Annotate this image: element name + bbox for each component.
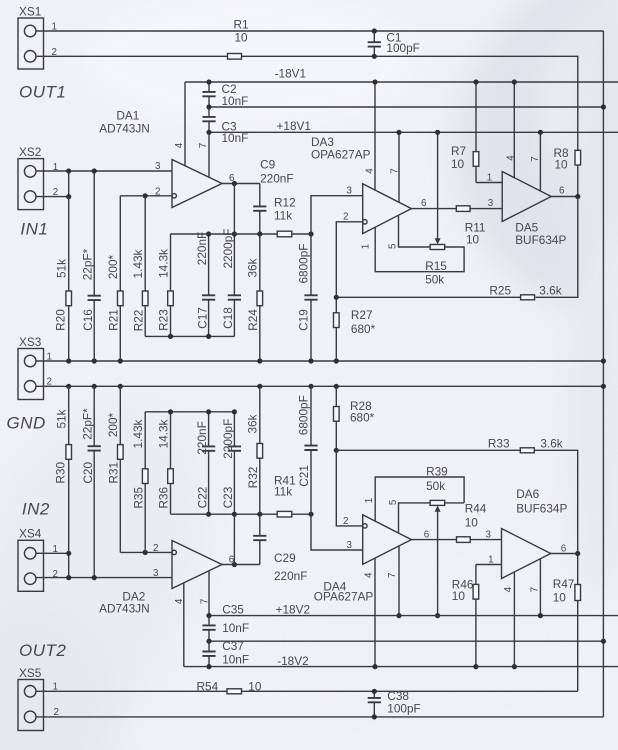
svg-text:R47: R47: [553, 577, 575, 591]
wire feedback bottom rail: [145, 335, 234, 337]
svg-text:C21: C21: [297, 465, 311, 487]
svg-text:1: 1: [487, 172, 492, 183]
svg-text:1: 1: [364, 498, 375, 503]
svg-text:C23: C23: [221, 486, 235, 508]
svg-text:OUT2: OUT2: [19, 641, 66, 660]
svg-text:220nF: 220nF: [260, 171, 293, 185]
svg-text:C20: C20: [81, 462, 95, 484]
svg-text:10nF: 10nF: [222, 653, 249, 667]
svg-text:7: 7: [387, 573, 398, 578]
svg-text:BUF634P: BUF634P: [515, 233, 566, 247]
svg-text:2200pF: 2200pF: [221, 419, 235, 459]
svg-text:+18V2: +18V2: [276, 603, 310, 617]
svg-text:7: 7: [390, 168, 401, 173]
capacitor C20 column: [93, 386, 95, 446]
wire DA2 output: [222, 564, 260, 566]
svg-text:3: 3: [488, 198, 494, 209]
svg-text:C16: C16: [81, 309, 95, 331]
capacitor C22 column: [208, 412, 210, 447]
node on pin3 wire for R20: [66, 168, 71, 173]
capacitor C29: [259, 540, 261, 564]
capacitor C21 column: [310, 386, 312, 445]
net +18V1 rail: [209, 131, 618, 133]
wire feedback top rail y=234: [171, 233, 278, 235]
wire DA3 pin3 link: [311, 196, 363, 234]
svg-text:4: 4: [506, 155, 517, 161]
svg-text:2: 2: [53, 569, 58, 580]
resistor R25: [521, 295, 535, 300]
wire R39 wiper to +18V2: [437, 511, 439, 616]
wire XS4.1 stub: [36, 552, 69, 554]
svg-text:R15: R15: [425, 259, 447, 273]
svg-text:4: 4: [363, 572, 374, 578]
resistor R32 column: [259, 386, 261, 443]
wire XS5.1 to R54: [36, 690, 227, 692]
svg-text:4: 4: [174, 142, 185, 148]
svg-text:6: 6: [229, 173, 235, 184]
node output / C23 branch: [232, 562, 237, 567]
wire R44 to DA6 pin3: [470, 539, 501, 541]
svg-text:3: 3: [155, 161, 161, 172]
wire DA5 pin7 from +18V1: [539, 132, 541, 191]
node output / C18 branch: [232, 181, 237, 186]
resistor R27 column: [335, 297, 337, 313]
wire XS4.2 to DA2 pin3: [36, 577, 172, 579]
wire XS2.2 stub to R20 column: [36, 196, 69, 198]
wire R8 to DA5 output node: [577, 165, 579, 197]
wire XS3.2 rail: [36, 385, 603, 387]
wire DA3 pin4 from -18V1: [374, 82, 376, 190]
capacitor C19 column: [310, 234, 312, 295]
svg-text:2: 2: [153, 543, 158, 554]
wire R33 feedback: [336, 449, 520, 451]
svg-text:6: 6: [424, 529, 430, 540]
svg-text:R35: R35: [132, 487, 146, 509]
resistor R33: [520, 448, 534, 453]
svg-text:R31: R31: [107, 462, 121, 484]
svg-text:6800pF: 6800pF: [297, 243, 311, 283]
svg-text:R36: R36: [157, 487, 171, 509]
svg-text:220nF: 220nF: [195, 232, 209, 265]
svg-text:R44: R44: [465, 502, 487, 516]
svg-text:C18: C18: [221, 307, 235, 329]
resistor R24 column: [259, 234, 261, 291]
wire DA5 output down to R25: [536, 197, 578, 298]
capacitor C16 column: [93, 171, 95, 296]
node pin2 / R22: [143, 193, 148, 198]
svg-text:4: 4: [174, 598, 185, 604]
svg-text:3.6k: 3.6k: [540, 437, 562, 451]
op-amp DA4: [363, 515, 412, 565]
svg-text:5: 5: [387, 243, 398, 249]
connector XS5 (OUT2): [18, 680, 44, 731]
node R28 / R33 / DA4 pin2: [334, 448, 339, 453]
svg-text:XS1: XS1: [19, 5, 41, 19]
wire DA1 pin7 branch: [208, 132, 210, 177]
wire DA4 pin7 to +18V2: [398, 546, 400, 616]
node XS2.2 / R20: [66, 194, 71, 199]
resistor R44: [457, 537, 471, 543]
trim network R15: pin5 wire: [399, 215, 431, 247]
wire feedback wire y=514 (ch2): [171, 513, 278, 515]
wire R11 to DA5 pin3: [470, 208, 502, 210]
node on pin3 wire for C16: [92, 168, 97, 173]
svg-text:10: 10: [451, 157, 465, 171]
wire output vertical to feedback wire (ch2): [233, 514, 235, 564]
svg-text:4: 4: [503, 586, 514, 592]
connector XS1 (OUT1): [18, 18, 44, 69]
svg-text:C29: C29: [274, 551, 296, 565]
capacitor C2: [208, 82, 210, 92]
capacitor C23 column: [233, 412, 235, 447]
svg-text:-18V2: -18V2: [277, 654, 308, 668]
potentiometer R15: [430, 245, 445, 250]
wire DA5 output: [551, 196, 578, 198]
svg-text:200*: 200*: [106, 412, 120, 437]
svg-text:36k: 36k: [246, 258, 260, 277]
wire DA5 pin4 from -18V1: [513, 82, 515, 178]
svg-text:6: 6: [561, 543, 567, 554]
resistor R41: [277, 511, 292, 517]
wire DA3 output to R11: [411, 208, 456, 210]
net -18V2 rail: [184, 666, 618, 668]
svg-text:11k: 11k: [274, 484, 292, 498]
svg-text:22pF*: 22pF*: [81, 248, 95, 280]
svg-text:2: 2: [343, 212, 348, 223]
svg-text:3: 3: [153, 568, 159, 579]
wire R54 to R47 corner: [242, 690, 578, 692]
wire R12 to C19 node: [292, 233, 311, 235]
svg-text:7: 7: [200, 599, 211, 604]
capacitor C38: [373, 691, 375, 698]
svg-text:R20: R20: [53, 309, 67, 331]
svg-text:680*: 680*: [351, 322, 376, 336]
svg-text:C17: C17: [195, 307, 209, 329]
op-amp DA2: [172, 541, 222, 589]
connector XS2 (IN1): [18, 159, 44, 210]
wire R15 loop to DA3 pin1: [375, 227, 464, 271]
svg-text:OUT1: OUT1: [19, 83, 66, 102]
wire XS5.2 from GND bus: [36, 716, 603, 718]
wire DA6 pin4 to -18V2: [513, 572, 515, 667]
svg-text:10nF: 10nF: [222, 621, 249, 635]
op-amp DA5 buffer: [502, 172, 551, 222]
svg-text:7: 7: [198, 143, 209, 148]
wire XS1.2 signal to R1: [36, 55, 228, 57]
svg-text:14.3k: 14.3k: [157, 419, 171, 448]
wire DA4 pin4 to -18V2: [374, 558, 376, 667]
svg-text:XS4: XS4: [19, 527, 42, 541]
svg-text:7: 7: [530, 156, 541, 161]
trim network R39: pin1 loop: [375, 477, 464, 521]
resistor R30 column: [68, 386, 70, 444]
svg-text:R21: R21: [107, 309, 121, 331]
svg-text:-18V1: -18V1: [275, 67, 306, 81]
svg-text:36k: 36k: [246, 414, 260, 433]
svg-text:1: 1: [360, 244, 371, 249]
wire R1 to right corner: [242, 56, 578, 150]
svg-text:50k: 50k: [425, 272, 444, 286]
op-amp DA3: [363, 184, 412, 234]
svg-text:200*: 200*: [106, 254, 120, 279]
wire R15 wiper to +18V1: [437, 132, 439, 239]
wire DA1 pin4 branch: [184, 82, 186, 166]
wire DA2 pin7 branch: [208, 571, 210, 616]
svg-text:680*: 680*: [350, 411, 375, 425]
wire DA2 pin4 branch: [183, 583, 185, 667]
capacitor C1: [373, 31, 375, 42]
wire DA6 pin7 to +18V2: [539, 559, 541, 616]
resistor R31 column: [119, 386, 121, 444]
wire R41 to C21 node: [292, 513, 311, 515]
node C19 / DA3 pin3: [257, 231, 262, 236]
svg-text:C9: C9: [260, 158, 275, 172]
wire R7 to DA5 pin1: [476, 182, 502, 184]
wire R33 to DA6 output: [534, 450, 577, 553]
resistor R28 column: [335, 386, 337, 406]
svg-text:6800pF: 6800pF: [297, 395, 311, 435]
potentiometer R39: [430, 500, 445, 505]
svg-text:10: 10: [555, 158, 569, 172]
wire DA3 pin7 from +18V1: [398, 132, 400, 202]
svg-text:3.6k: 3.6k: [539, 284, 561, 298]
capacitor C3: [208, 107, 210, 117]
node pin2 / R35: [143, 550, 148, 555]
resistor R35 column: [144, 412, 146, 469]
resistor R7 column: [475, 82, 477, 152]
wire GND bus vertical right side: [602, 31, 604, 717]
capacitor C35: [208, 616, 210, 626]
wire output vertical to feedback wire: [233, 184, 235, 235]
svg-text:220nF: 220nF: [195, 421, 209, 454]
resistor R11: [456, 206, 470, 212]
svg-text:AD743JN: AD743JN: [99, 122, 150, 136]
wire DA1 output: [222, 183, 260, 185]
net GND mid rail (channel 2): [209, 640, 603, 642]
svg-text:5: 5: [388, 499, 399, 505]
wire DA4 pin2 link: [336, 450, 363, 526]
svg-text:R25: R25: [489, 284, 511, 298]
wire R39 left to pin5: [399, 503, 431, 533]
wire feedback top rail (ch2): [145, 411, 234, 413]
net -18V1 rail: [185, 81, 618, 83]
node DA5 output: [575, 194, 580, 199]
resistor R47 column: [577, 554, 579, 585]
svg-text:100pF: 100pF: [387, 701, 420, 715]
svg-text:BUF634P: BUF634P: [516, 502, 567, 516]
svg-text:1.43k: 1.43k: [131, 419, 145, 448]
connector XS3 (GND): [18, 349, 44, 400]
wire DA3 pin2 link: [336, 222, 363, 297]
svg-text:10: 10: [466, 232, 480, 246]
node DA6 output: [575, 551, 580, 556]
svg-text:R54: R54: [197, 679, 219, 693]
wire R39 right side: [445, 502, 464, 504]
svg-text:2: 2: [54, 707, 59, 718]
wire DA1 pin2 segment: [120, 195, 172, 197]
svg-text:3: 3: [347, 540, 353, 551]
wire R31 to DA2 pin2: [120, 551, 172, 553]
svg-text:100pF: 100pF: [386, 41, 419, 55]
svg-text:51k: 51k: [55, 409, 69, 428]
resistor R22 column: [144, 196, 146, 291]
resistor R8: [575, 150, 581, 165]
op-amp DA6 buffer: [502, 529, 551, 579]
svg-text:R22: R22: [132, 310, 146, 332]
svg-text:OPA627AP: OPA627AP: [314, 590, 374, 604]
connector XS4 (IN2): [18, 540, 44, 591]
capacitor C17 column: [208, 234, 210, 295]
svg-text:IN2: IN2: [22, 500, 50, 519]
svg-text:R32: R32: [246, 467, 260, 489]
svg-text:10nF: 10nF: [222, 131, 249, 145]
op-amp DA1: [172, 160, 222, 208]
node DA3 pin2 / R25 / R27: [334, 295, 339, 300]
wire DA4 output: [411, 539, 456, 541]
resistor R1: [228, 54, 242, 60]
svg-text:+18V1: +18V1: [277, 119, 311, 133]
wire XS2.1 to DA1 pin3: [36, 170, 172, 172]
svg-text:22pF*: 22pF*: [81, 408, 95, 440]
svg-text:10: 10: [452, 589, 466, 603]
svg-text:3: 3: [486, 529, 492, 540]
wire XS1.1 to GND bus corner (top ground wire): [36, 30, 603, 32]
svg-text:11k: 11k: [274, 208, 292, 222]
svg-text:10: 10: [235, 31, 249, 45]
svg-text:GND: GND: [7, 414, 46, 433]
svg-text:10nF: 10nF: [222, 94, 249, 108]
svg-text:DA6: DA6: [516, 487, 539, 501]
capacitor C18 column: [233, 234, 235, 295]
svg-text:7: 7: [530, 587, 541, 592]
svg-text:R39: R39: [426, 464, 448, 478]
wire ground rail XS3.1: [36, 360, 603, 362]
svg-text:10: 10: [553, 590, 567, 604]
svg-text:R1: R1: [234, 18, 249, 32]
resistor R12: [277, 231, 292, 237]
svg-text:6: 6: [559, 186, 565, 197]
svg-text:4: 4: [365, 168, 376, 174]
svg-text:50k: 50k: [426, 479, 445, 493]
svg-text:XS5: XS5: [19, 666, 42, 680]
svg-text:AD743JN: AD743JN: [99, 601, 150, 615]
resistor R36 column: [170, 412, 172, 469]
svg-text:XS3: XS3: [19, 335, 42, 349]
resistor R46 column: [475, 565, 477, 585]
svg-text:C35: C35: [222, 603, 244, 617]
svg-text:C22: C22: [195, 487, 209, 509]
svg-text:10: 10: [465, 515, 479, 529]
net GND mid rail (channel 1): [209, 106, 603, 108]
wire DA4 pin3 link: [311, 514, 363, 550]
svg-text:6: 6: [421, 198, 427, 209]
svg-text:R24: R24: [246, 309, 260, 331]
svg-text:XS2: XS2: [19, 145, 41, 159]
svg-text:C19: C19: [297, 309, 311, 331]
resistor R20 51k column: [68, 171, 70, 291]
svg-text:R33: R33: [488, 437, 510, 451]
svg-text:C37: C37: [222, 639, 244, 653]
wire R25 to DA3 pin2 node: [336, 296, 520, 298]
capacitor C9: [259, 184, 261, 207]
svg-text:R23: R23: [157, 309, 171, 331]
resistor R23 column: [170, 234, 172, 291]
node XS4.1 / R30: [66, 551, 71, 556]
svg-text:14.3k: 14.3k: [157, 249, 171, 278]
resistor R21 200 column: [119, 196, 121, 291]
svg-text:51k: 51k: [55, 259, 69, 278]
svg-text:DA1: DA1: [116, 109, 139, 123]
svg-text:1.43k: 1.43k: [131, 249, 145, 278]
capacitor C37: [208, 641, 210, 651]
svg-text:R30: R30: [53, 462, 67, 484]
wire R46 to DA6 pin1: [476, 564, 502, 566]
net +18V2 rail: [209, 615, 618, 617]
svg-text:3: 3: [347, 185, 353, 196]
svg-text:2: 2: [155, 186, 160, 197]
svg-text:IN1: IN1: [20, 219, 48, 238]
wire DA6 output: [551, 553, 578, 555]
svg-text:R27: R27: [351, 308, 373, 322]
svg-text:1: 1: [488, 554, 493, 565]
svg-text:2: 2: [343, 516, 348, 527]
svg-text:220nF: 220nF: [274, 569, 307, 583]
resistor R54: [227, 689, 242, 694]
svg-text:OPA627AP: OPA627AP: [311, 148, 371, 162]
